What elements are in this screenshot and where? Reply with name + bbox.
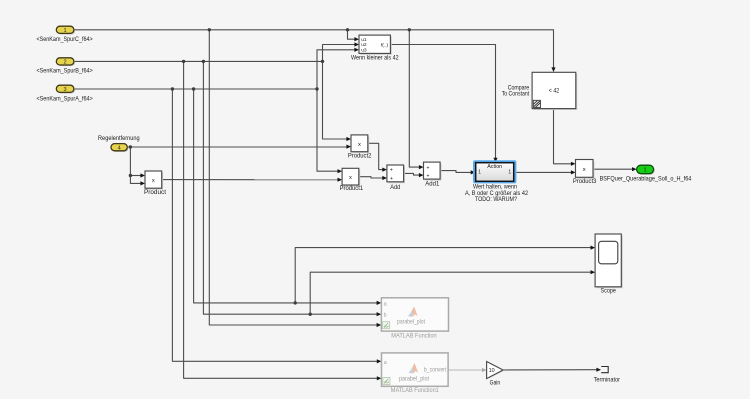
- label Terminator: [594, 378, 620, 384]
- svg-text:4: 4: [118, 145, 121, 151]
- svg-text:a: a: [384, 301, 387, 307]
- wire branch Inport3 -> MATLAB Function1 input a: [172, 89, 381, 363]
- wire net Inport1: main run to Compare To Constant: [74, 30, 556, 72]
- wire branch Inport2 -> u2 of Wenn kleiner als 42: [323, 42, 360, 61]
- block Product1: [342, 168, 360, 186]
- svg-text:10: 10: [489, 368, 495, 374]
- wire Product -> Product1 input 2: [162, 178, 342, 182]
- label Compare To Constant: [502, 86, 530, 98]
- wire Product3 -> Outport 1: [593, 167, 637, 171]
- wire branch Inport3 -> u3 of Wenn kleiner als 42: [317, 48, 359, 89]
- svg-text:b: b: [384, 312, 387, 318]
- svg-text:BSFQuer_Querablage_Soll_o_H_f6: BSFQuer_Querablage_Soll_o_H_f64: [600, 177, 692, 183]
- label Add: [390, 185, 400, 191]
- svg-text:Product: Product: [144, 190, 166, 196]
- svg-text:2: 2: [64, 60, 67, 66]
- label Wenn kleiner als 42: [351, 56, 399, 62]
- label Product3: [573, 179, 597, 185]
- svg-text:Action: Action: [487, 164, 502, 170]
- wire Compare To Constant -> Product3 input 1: [554, 109, 576, 166]
- label inport 2 signal name: [36, 69, 93, 75]
- svg-text:Gain: Gain: [490, 381, 501, 387]
- block Compare To Constant: [532, 72, 577, 110]
- label Scope: [601, 289, 617, 295]
- wire branch Inport2 -> Product2 input 1: [323, 61, 352, 141]
- label Action subsystem: [465, 185, 529, 203]
- svg-text:u1: u1: [361, 37, 367, 43]
- wire Add1 -> Action subsystem input: [440, 170, 475, 174]
- wire branch Inport1 -> Add1 input 1: [409, 30, 423, 169]
- junction Inport2 at MATLAB Function1 branch: [182, 60, 185, 63]
- wire tap MATLAB-b line -> Scope input 2: [310, 270, 595, 314]
- wire Action subsystem -> Product3 input 2: [516, 170, 575, 174]
- label outport BSFQuer: [600, 177, 692, 183]
- svg-text:MATLAB Function1: MATLAB Function1: [391, 387, 439, 394]
- svg-text:Compare: Compare: [508, 86, 530, 92]
- inport 3: [56, 85, 75, 93]
- svg-text:Regelentfernung: Regelentfernung: [98, 136, 140, 142]
- outport 1: [637, 165, 655, 175]
- wire net Inport4 Regelentfernung -> Product2 input 2: [127, 145, 351, 149]
- label inport 3 signal name: [36, 96, 93, 102]
- junction Inport3 at MATLAB Function1 branch: [171, 87, 174, 90]
- wire branch Inport2 -> MATLAB Function input b: [203, 61, 381, 316]
- inport 1: [56, 26, 75, 34]
- label inport 1 signal name: [36, 37, 93, 43]
- label Product2: [348, 153, 372, 159]
- wire branch Inport1 -> MATLAB Function input c: [209, 30, 381, 327]
- wire tap MATLAB-a line -> Scope input 1: [295, 246, 595, 303]
- svg-text:+: +: [390, 176, 393, 182]
- block Add1: [424, 162, 442, 180]
- svg-text:1: 1: [508, 170, 511, 176]
- svg-text:A, B oder C größer als 42: A, B oder C größer als 42: [465, 191, 529, 197]
- block MATLAB Function (commented): [381, 298, 448, 331]
- svg-text:Product1: Product1: [340, 186, 364, 192]
- svg-text:+: +: [427, 173, 430, 179]
- wire branch Inport2 -> MATLAB Function1 input 2: [184, 61, 382, 380]
- svg-text:Scope: Scope: [601, 289, 617, 295]
- svg-text:+: +: [427, 165, 430, 171]
- block Scope: [595, 234, 623, 288]
- svg-text:Product3: Product3: [573, 179, 597, 185]
- junction Scope input 1 tap: [294, 301, 297, 304]
- svg-text:parabel_plot: parabel_plot: [397, 320, 425, 326]
- wire Product2 -> Add input 1: [368, 143, 387, 171]
- inport 2: [56, 58, 75, 66]
- label Product1: [340, 186, 364, 192]
- label MATLAB Function1: [391, 387, 439, 394]
- svg-text:<SenKam_SpurA_f64>: <SenKam_SpurA_f64>: [36, 96, 93, 102]
- inport 4: [111, 144, 128, 152]
- icon Compare To Constant mask: [533, 100, 540, 107]
- junction Scope input 2 tap: [309, 313, 312, 316]
- wire MATLAB Function1 -> Gain (commented, gray): [448, 368, 487, 372]
- svg-text:3: 3: [64, 87, 67, 93]
- junction Inport4 main: [129, 145, 132, 148]
- junction Inport4 lower: [129, 174, 132, 177]
- wire Wenn-kleiner-als-42 f() -> Action port (top): [390, 45, 497, 163]
- svg-text:u3: u3: [361, 48, 367, 54]
- svg-text:Wenn kleiner als 42: Wenn kleiner als 42: [351, 56, 399, 62]
- block Product3: [576, 160, 595, 179]
- wire Product1 -> Add input 2: [359, 176, 387, 180]
- svg-text:x: x: [349, 175, 352, 181]
- label inport 4 Regelentfernung: [98, 136, 140, 142]
- block MATLAB Function1 (commented): [382, 353, 449, 386]
- svg-text:1: 1: [478, 170, 481, 176]
- junction Inport2 at MATLAB Function branch: [202, 60, 205, 63]
- block Add: [387, 165, 405, 183]
- junction Inport3 at MATLAB Function branch: [192, 87, 195, 90]
- svg-text:x: x: [152, 178, 155, 184]
- svg-text:< 42: < 42: [549, 88, 560, 94]
- wire Gain -> Terminator: [503, 368, 601, 372]
- block Action subsystem (selected): [473, 160, 516, 183]
- svg-text:Add1: Add1: [425, 182, 440, 188]
- block Terminator: [601, 367, 608, 373]
- junction Inport2 at u2/Product2 branch: [321, 60, 324, 63]
- svg-text:<SenKam_SpurB_f64>: <SenKam_SpurB_f64>: [36, 69, 93, 75]
- svg-text:Wert halten, wenn: Wert halten, wenn: [473, 185, 517, 191]
- wire net Inport3: main run: [74, 88, 317, 90]
- svg-text:To Constant: To Constant: [502, 92, 530, 98]
- junction Inport1 at Add1 branch: [408, 28, 411, 31]
- svg-text:TODO: WARUM?: TODO: WARUM?: [475, 197, 518, 203]
- block Product: [145, 171, 163, 190]
- svg-text:+: +: [390, 168, 393, 174]
- block Product2: [351, 135, 369, 153]
- block Wenn kleiner als 42: [359, 35, 392, 55]
- svg-text:f(..): f(..): [381, 42, 389, 48]
- wire net Inport2: main run: [74, 60, 323, 62]
- svg-text:1: 1: [64, 28, 67, 34]
- wire Add -> Add1 input 2: [404, 173, 424, 177]
- wire branch Inport3 -> Product1 input 1: [317, 89, 342, 173]
- label Add1: [425, 182, 440, 188]
- svg-text:MATLAB Function: MATLAB Function: [391, 332, 437, 339]
- svg-text:a: a: [384, 360, 387, 366]
- wire branch Inport3 -> MATLAB Function input a: [194, 89, 382, 305]
- junction Inport3 at u3/Product1 branch: [315, 87, 318, 90]
- svg-text:Terminator: Terminator: [594, 378, 620, 384]
- wire branch Inport4 down to Product inputs: [130, 147, 145, 186]
- svg-text:x: x: [358, 142, 361, 148]
- wire branch Inport4 -> Product input 1: [130, 173, 145, 177]
- label MATLAB Function: [391, 332, 437, 339]
- svg-text:Product2: Product2: [348, 153, 372, 159]
- svg-text:1: 1: [644, 168, 647, 174]
- label Product: [144, 190, 166, 196]
- wire branch Inport1 -> u1 of Wenn kleiner als 42: [348, 30, 360, 42]
- junction Inport1 at u1 branch: [346, 28, 349, 31]
- svg-text:x: x: [583, 167, 586, 173]
- svg-text:b_convert: b_convert: [424, 367, 447, 373]
- label Gain: [490, 381, 501, 387]
- svg-text:parabel_plot: parabel_plot: [399, 376, 429, 382]
- svg-text:u2: u2: [361, 42, 367, 48]
- block Gain: [487, 362, 504, 379]
- svg-text:Add: Add: [390, 185, 400, 191]
- junction Inport1 at MATLAB Function branch: [208, 28, 211, 31]
- svg-text:<SenKam_SpurC_f64>: <SenKam_SpurC_f64>: [36, 37, 93, 43]
